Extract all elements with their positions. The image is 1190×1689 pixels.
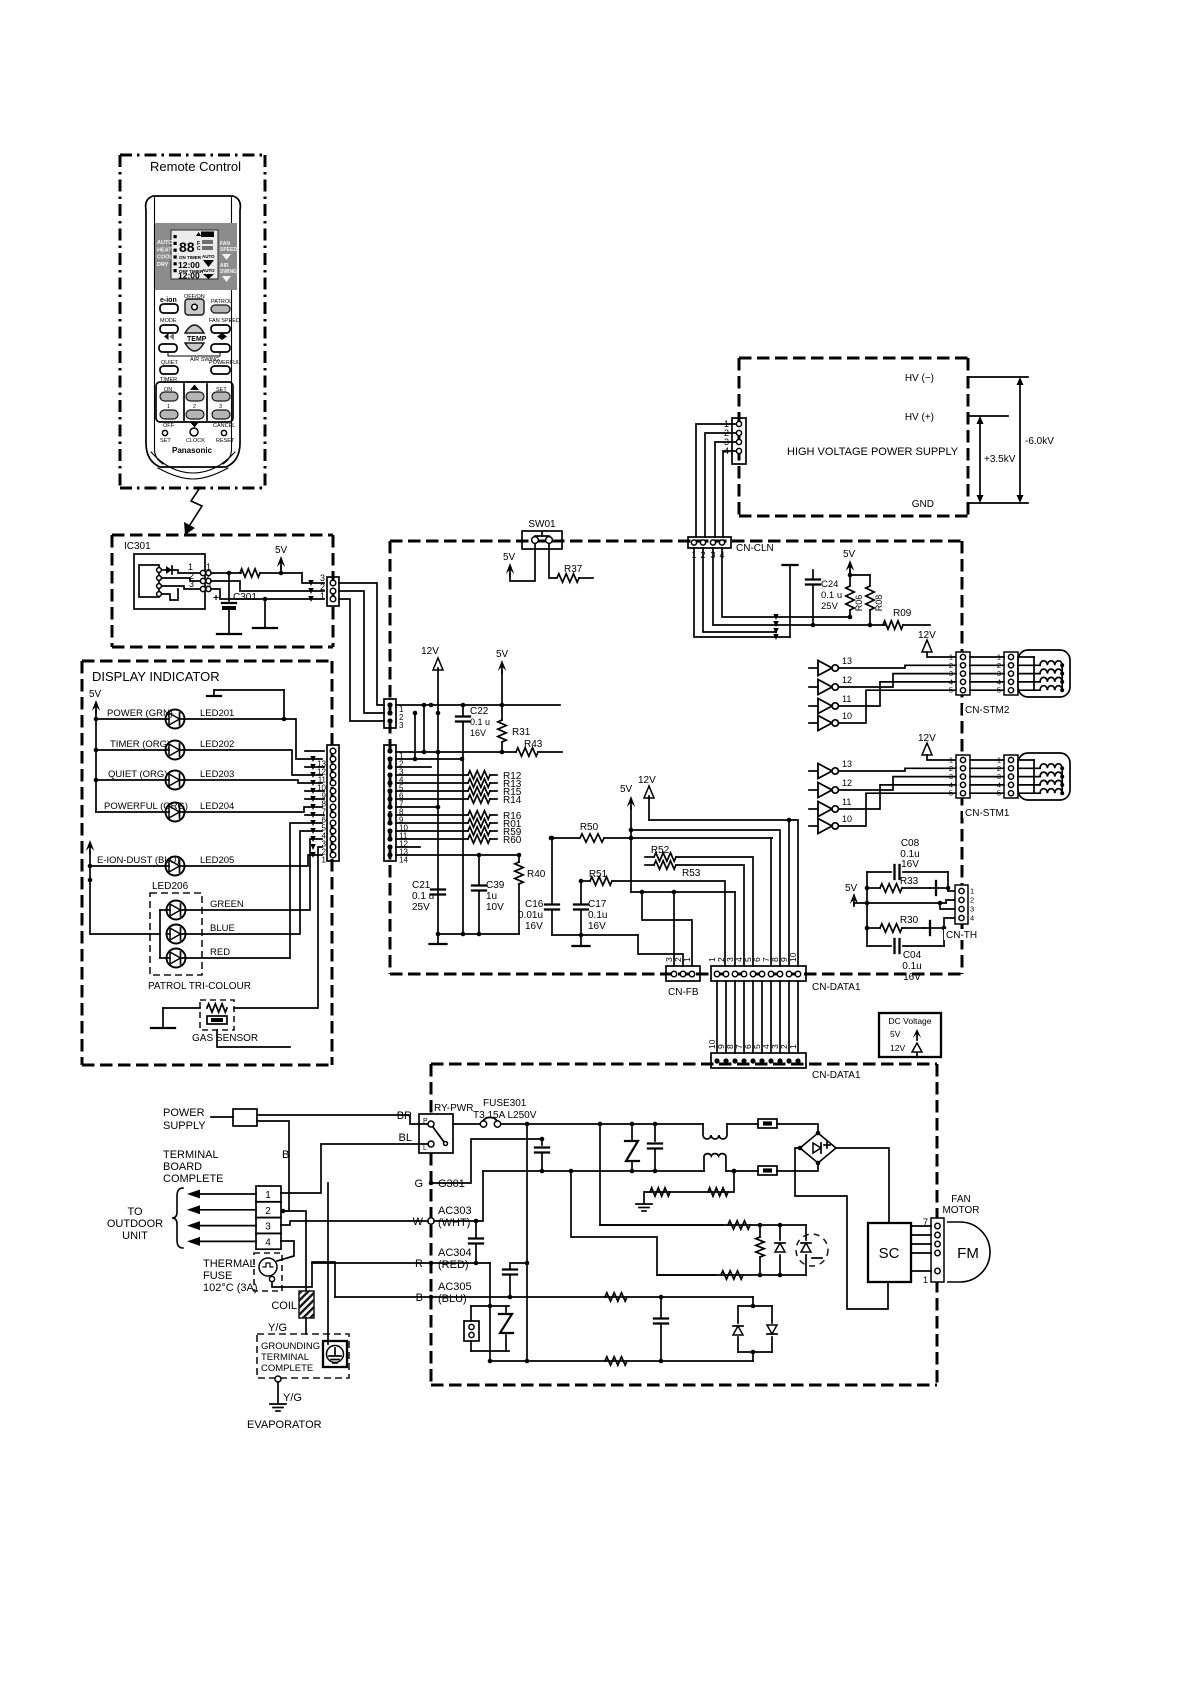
capacitor near AC305 <box>509 1276 511 1297</box>
main 3-pin connector <box>384 699 396 728</box>
capacitor C39 <box>478 855 480 884</box>
svg-text:Panasonic: Panasonic <box>172 446 213 455</box>
svg-text:OFF: OFF <box>163 423 175 429</box>
resistor R60 <box>396 838 468 840</box>
svg-text:5V: 5V <box>496 649 509 660</box>
resistor R12 <box>396 774 468 776</box>
svg-text:1: 1 <box>167 404 170 410</box>
bridge rectifier <box>798 1131 836 1166</box>
svg-text:FUSE: FUSE <box>203 1270 232 1282</box>
display side connector 14-pin <box>327 745 339 861</box>
svg-text:1: 1 <box>320 591 325 601</box>
svg-text:UNIT: UNIT <box>122 1230 148 1242</box>
LED206 feed rail <box>90 933 160 935</box>
resistor R15 <box>396 790 468 792</box>
svg-text:TERMINAL: TERMINAL <box>163 1149 219 1161</box>
ground resistor row <box>644 1171 734 1204</box>
svg-text:GAS SENSOR: GAS SENSOR <box>192 1033 258 1044</box>
svg-text:3: 3 <box>219 404 222 410</box>
svg-text:16V: 16V <box>903 972 921 983</box>
svg-text:AUTO: AUTO <box>202 254 215 259</box>
svg-text:T3.15A L250V: T3.15A L250V <box>473 1110 537 1121</box>
svg-text:16V: 16V <box>588 921 606 932</box>
svg-text:1: 1 <box>923 1275 928 1285</box>
svg-text:2: 2 <box>193 404 196 410</box>
stepping motor CN-STM2 <box>1018 650 1070 697</box>
svg-text:CN-DATA1: CN-DATA1 <box>812 1070 861 1081</box>
resistor R08 <box>866 586 874 610</box>
connector CN-FB <box>664 957 700 998</box>
coil feed wire <box>281 1209 286 1214</box>
capacitor C08 loop <box>866 872 868 946</box>
svg-text:LED201: LED201 <box>200 708 234 719</box>
capacitor mid bottom <box>660 1297 662 1317</box>
AC bus to bottom fuse <box>726 1170 758 1172</box>
svg-text:102°C (3A): 102°C (3A) <box>203 1282 258 1294</box>
svg-text:G301: G301 <box>438 1178 465 1190</box>
svg-text:C22: C22 <box>470 706 489 717</box>
bus under C16 C17 <box>552 934 638 936</box>
arrows to outdoor unit <box>199 1193 256 1195</box>
svg-text:AUTO: AUTO <box>157 240 173 246</box>
svg-text:RED: RED <box>210 947 230 958</box>
svg-text:12: 12 <box>842 675 852 685</box>
gas sensor wires <box>163 1007 200 1009</box>
photocoupler resistor <box>759 1225 761 1237</box>
svg-text:DC Voltage: DC Voltage <box>889 1016 932 1026</box>
svg-text:MOTOR: MOTOR <box>942 1205 979 1216</box>
svg-text:COIL: COIL <box>271 1300 297 1312</box>
LED206 blue <box>167 925 186 944</box>
svg-text:3: 3 <box>265 1222 271 1233</box>
svg-text:C24: C24 <box>821 579 838 590</box>
svg-text:5V: 5V <box>503 552 516 563</box>
svg-text:POWER (GRN): POWER (GRN) <box>107 708 173 719</box>
svg-text:0.1u: 0.1u <box>902 961 921 972</box>
inverter buffers CN-STM2 <box>809 667 818 669</box>
svg-text:C: C <box>197 246 201 252</box>
svg-text:B: B <box>416 1292 423 1304</box>
LED202 timer orange <box>96 749 166 751</box>
resistor on B row <box>605 1293 627 1301</box>
ground stub top <box>214 689 284 691</box>
svg-text:10V: 10V <box>486 902 504 913</box>
svg-text:(RED): (RED) <box>438 1259 469 1271</box>
brace outdoor <box>172 1188 183 1248</box>
svg-text:0.1u: 0.1u <box>588 910 607 921</box>
wire B AC305 <box>429 1295 434 1300</box>
noise filter box bottom <box>758 1166 777 1175</box>
main 14-pin connector <box>384 745 396 861</box>
remote buttons <box>156 294 240 455</box>
row14 with C39 R40 <box>396 854 519 856</box>
svg-text:R50: R50 <box>580 822 599 833</box>
svg-text:1u: 1u <box>486 891 497 902</box>
svg-text:AUTO: AUTO <box>202 268 215 273</box>
svg-text:+3.5kV: +3.5kV <box>984 454 1016 465</box>
+3.5kV dimension arrow <box>979 420 981 499</box>
svg-text:1: 1 <box>788 1044 798 1049</box>
svg-text:PATROL: PATROL <box>211 299 232 305</box>
bottom bus AC <box>490 1360 753 1362</box>
svg-text:QUIET: QUIET <box>161 360 178 366</box>
svg-text:10: 10 <box>842 814 852 824</box>
thermal fuse <box>254 1253 282 1291</box>
svg-text:4: 4 <box>265 1237 271 1248</box>
capacitor W-R <box>475 1221 477 1237</box>
svg-text:0.1 u: 0.1 u <box>470 717 490 727</box>
wires CN-CLN down to nets <box>694 548 790 637</box>
svg-text:12V: 12V <box>890 1043 905 1053</box>
line filter transformer <box>703 1124 727 1171</box>
svg-text:RESET: RESET <box>216 438 235 444</box>
svg-text:12: 12 <box>842 778 852 788</box>
svg-text:C21: C21 <box>412 880 431 891</box>
svg-text:THERMAL: THERMAL <box>203 1258 256 1270</box>
svg-text:1: 1 <box>265 1190 271 1201</box>
svg-text:FUSE301: FUSE301 <box>483 1098 527 1109</box>
svg-text:E-ION-DUST (BLU): E-ION-DUST (BLU) <box>97 855 180 866</box>
resistor R06 <box>846 586 854 610</box>
svg-text:SW01: SW01 <box>528 519 556 530</box>
svg-text:R09: R09 <box>893 608 912 619</box>
wires IC301 connector to main board <box>339 583 384 705</box>
-6.0kV dimension arrow <box>1019 381 1021 499</box>
connector CN-DATA1 bottom <box>707 1039 861 1081</box>
LED203 quiet orange <box>96 779 166 781</box>
capacitor C22 <box>462 705 464 715</box>
svg-text:R60: R60 <box>503 835 522 846</box>
wire G301 to cap <box>429 1181 434 1186</box>
svg-text:R53: R53 <box>682 868 701 879</box>
direction arrows into display connector <box>308 580 314 586</box>
svg-text:DRY: DRY <box>157 262 169 268</box>
svg-text:13: 13 <box>842 656 852 666</box>
svg-text:C04: C04 <box>903 950 922 961</box>
svg-text:0.1 u: 0.1 u <box>412 891 434 902</box>
svg-text:EVAPORATOR: EVAPORATOR <box>247 1419 322 1431</box>
svg-text:MODE: MODE <box>160 318 177 324</box>
svg-text:Y/G: Y/G <box>283 1392 302 1404</box>
resistor R31 <box>501 705 503 720</box>
arrester loop <box>489 1263 491 1361</box>
svg-text:-6.0kV: -6.0kV <box>1025 436 1054 447</box>
connector CN-TH <box>944 885 986 941</box>
svg-text:3: 3 <box>970 905 974 914</box>
high voltage power supply box <box>739 358 968 516</box>
LED206 green <box>167 901 186 920</box>
ground C301 <box>217 633 241 635</box>
svg-text:CN-CLN: CN-CLN <box>736 543 774 554</box>
svg-text:C08: C08 <box>901 838 920 849</box>
svg-text:e-ion: e-ion <box>160 297 177 304</box>
svg-text:R: R <box>415 1258 423 1270</box>
svg-text:GROUNDING: GROUNDING <box>261 1341 320 1352</box>
row3 stub <box>396 766 431 768</box>
switch SW01 <box>522 519 562 549</box>
svg-text:PATROL TRI-COLOUR: PATROL TRI-COLOUR <box>148 981 251 992</box>
vertical dropper to lower rows <box>600 1124 723 1225</box>
gas sensor <box>192 1000 258 1044</box>
svg-text:LED205: LED205 <box>200 855 234 866</box>
svg-text:+: + <box>213 593 219 604</box>
svg-text:1: 1 <box>322 856 327 865</box>
wires to CN-TH pins 2-3 <box>940 903 956 909</box>
svg-text:CN-TH: CN-TH <box>946 930 977 941</box>
12V distribution to bundle <box>649 820 798 966</box>
remote LCD panel <box>155 223 237 290</box>
svg-text:COMPLETE: COMPLETE <box>261 1363 313 1374</box>
svg-text:5V: 5V <box>843 549 856 560</box>
resistor R13 <box>396 782 468 784</box>
svg-text:SET: SET <box>160 438 171 444</box>
LED204 powerful orange <box>96 811 166 813</box>
svg-text:TO: TO <box>127 1206 143 1218</box>
svg-text:C39: C39 <box>486 880 505 891</box>
photo triac <box>796 1225 828 1275</box>
svg-text:HIGH VOLTAGE POWER SUPPLY: HIGH VOLTAGE POWER SUPPLY <box>787 446 959 458</box>
row13 stub <box>396 846 420 848</box>
svg-text:R40: R40 <box>527 869 546 880</box>
svg-text:2: 2 <box>265 1206 271 1217</box>
row from pin1 with C22 R31 <box>396 704 560 706</box>
svg-text:10: 10 <box>842 711 852 721</box>
svg-text:DISPLAY INDICATOR: DISPLAY INDICATOR <box>92 669 220 684</box>
electrode line with T top <box>789 565 791 637</box>
svg-text:C17: C17 <box>588 899 607 910</box>
IC301 section box <box>112 535 333 647</box>
connector CN-STM2 board side <box>956 652 970 695</box>
IC301 IR receiver <box>134 554 211 609</box>
capacitor across AC <box>654 1124 656 1141</box>
LED201 power green <box>96 718 166 720</box>
DC voltage legend box <box>879 1013 941 1057</box>
IR signal verticals <box>423 705 425 752</box>
svg-text:IC301: IC301 <box>124 541 151 552</box>
5V row to bundle p8 <box>631 830 780 966</box>
svg-text:SC: SC <box>879 1245 900 1262</box>
bridge output to SC <box>836 1148 889 1223</box>
resistor R14 <box>396 798 468 800</box>
svg-text:FM: FM <box>957 1245 979 1262</box>
svg-text:GREEN: GREEN <box>210 899 244 910</box>
main AC bus top <box>527 1123 703 1125</box>
svg-text:HEAT: HEAT <box>157 247 172 253</box>
connector CN-STM1 motor side <box>1004 755 1018 798</box>
grounding link from G301 <box>327 1183 329 1344</box>
capacitor C301 <box>228 575 230 601</box>
AC bus second <box>483 1170 704 1172</box>
relay RY-PWR <box>419 1103 473 1153</box>
svg-text:COOL: COOL <box>157 255 174 261</box>
svg-text:TEMP: TEMP <box>187 336 207 343</box>
wire W AC303 <box>428 1218 434 1224</box>
svg-text:C16: C16 <box>525 899 544 910</box>
thermal fuse wiring <box>277 1241 294 1261</box>
photocoupler diode <box>779 1225 781 1240</box>
svg-text:11: 11 <box>842 797 851 807</box>
IC301 output connector 3-pin <box>327 577 339 606</box>
wire R AC304 <box>429 1261 434 1266</box>
svg-text:R33: R33 <box>900 876 919 887</box>
svg-text:(BLU): (BLU) <box>438 1293 467 1305</box>
svg-text:5V: 5V <box>620 784 633 795</box>
wires CN-DATA1 to lower board <box>716 981 718 1053</box>
svg-text:25V: 25V <box>821 601 839 612</box>
bridge return path <box>795 1148 888 1309</box>
svg-text:1: 1 <box>682 957 692 962</box>
capacitor C24 <box>812 570 814 578</box>
svg-text:LED206: LED206 <box>152 881 189 892</box>
connector CN-CLN 4-pin <box>688 537 774 560</box>
remote control body <box>146 196 241 479</box>
svg-text:CN-STM2: CN-STM2 <box>965 705 1010 716</box>
R50 to bundle p7 <box>771 838 772 966</box>
photocoupler bottom row <box>657 1274 806 1276</box>
direction arrows on CLN nets <box>773 614 779 620</box>
svg-text:R31: R31 <box>512 727 531 738</box>
connector CN-DATA1 top <box>707 952 861 993</box>
fuse FUSE301 <box>453 1098 537 1127</box>
svg-text:10: 10 <box>788 952 798 962</box>
svg-text:14: 14 <box>399 856 408 865</box>
vertical to photocoupler bottom row <box>571 1171 715 1275</box>
svg-text:88: 88 <box>179 239 195 255</box>
svg-text:TIMER (ORG): TIMER (ORG) <box>110 739 170 750</box>
svg-text:QUIET (ORG): QUIET (ORG) <box>108 769 167 780</box>
svg-text:R30: R30 <box>900 915 919 926</box>
wires HVPS to CN-CLN <box>696 424 736 537</box>
svg-text:Y/G: Y/G <box>268 1322 287 1334</box>
main control board box <box>390 541 962 974</box>
power board section box <box>431 1064 937 1385</box>
svg-text:16V: 16V <box>470 728 486 738</box>
ground stub <box>437 934 439 944</box>
long vertical from fuse <box>526 1124 528 1361</box>
LED206 tri-colour box <box>150 881 202 975</box>
svg-text:W: W <box>413 1216 424 1228</box>
svg-text:BL: BL <box>399 1132 412 1144</box>
svg-text:C301: C301 <box>233 592 257 603</box>
svg-text:SWING: SWING <box>220 269 237 275</box>
LED206 red <box>167 949 186 968</box>
svg-text:5V: 5V <box>845 883 858 894</box>
arrow from remote to IC301 <box>188 489 202 528</box>
evaporator ground <box>275 1376 281 1382</box>
svg-text:25V: 25V <box>412 902 430 913</box>
svg-text:11: 11 <box>842 694 851 704</box>
display indicator section box <box>82 661 332 1065</box>
row8 to 12V rail <box>396 806 438 808</box>
svg-text:HV (−): HV (−) <box>905 373 934 384</box>
resistor R16 <box>396 814 468 816</box>
svg-text:16V: 16V <box>525 921 543 932</box>
svg-text:R52: R52 <box>651 845 670 856</box>
5V rail E-ION <box>86 840 94 851</box>
svg-text:13: 13 <box>842 759 852 769</box>
svg-text:1: 1 <box>970 887 974 896</box>
svg-text:LED202: LED202 <box>200 739 234 750</box>
svg-text:HV (+): HV (+) <box>905 412 934 423</box>
bottom bus of C21 cluster <box>438 933 519 935</box>
svg-text:0.01u: 0.01u <box>518 910 543 921</box>
svg-text:16V: 16V <box>901 859 919 870</box>
svg-text:AC305: AC305 <box>438 1281 472 1293</box>
svg-text:POWERFUL: POWERFUL <box>209 360 240 366</box>
svg-text:OUTDOOR: OUTDOOR <box>107 1218 163 1230</box>
svg-text:BOARD: BOARD <box>163 1161 202 1173</box>
inverter buffers CN-STM1 <box>809 770 818 772</box>
stepping motor CN-STM1 <box>1018 753 1070 800</box>
grounding terminal complete <box>257 1334 349 1378</box>
5V branch to CN-FB <box>631 891 735 893</box>
svg-text:FAN: FAN <box>951 1194 970 1205</box>
svg-text:CN-STM1: CN-STM1 <box>965 808 1010 819</box>
terminal board 1-4 <box>256 1186 281 1249</box>
varistor Z1 <box>631 1124 633 1139</box>
svg-text:5V: 5V <box>275 545 288 556</box>
svg-text:COMPLETE: COMPLETE <box>163 1173 224 1185</box>
resistor on IC301 output <box>240 569 260 577</box>
fan motor connector <box>911 1217 944 1285</box>
svg-text:12V: 12V <box>638 775 656 786</box>
svg-text:0.1 u: 0.1 u <box>821 590 842 601</box>
ground IC301 <box>263 597 268 602</box>
svg-text:TERMINAL: TERMINAL <box>261 1352 309 1363</box>
svg-text:CN-FB: CN-FB <box>668 987 699 998</box>
svg-text:R14: R14 <box>503 795 522 806</box>
svg-text:RY-PWR: RY-PWR <box>434 1103 473 1114</box>
svg-text:G: G <box>414 1178 423 1190</box>
capacitor C16 vertical <box>550 836 555 841</box>
wire IC301 pin1 net <box>211 572 241 574</box>
svg-text:5V: 5V <box>89 689 102 700</box>
direction arrows into display 14p connector <box>305 750 324 752</box>
svg-text:POWERFUL (ORG): POWERFUL (ORG) <box>104 801 188 812</box>
SC speed controller <box>868 1223 911 1282</box>
svg-text:FAN SPEED: FAN SPEED <box>209 318 240 324</box>
svg-text:4: 4 <box>970 914 974 923</box>
resistor R30 loop <box>865 926 870 931</box>
svg-text:CN-DATA1: CN-DATA1 <box>812 982 861 993</box>
wire IC301 pin3 net <box>211 589 324 599</box>
photocoupler top row <box>600 1224 806 1226</box>
svg-text:CLOCK: CLOCK <box>186 438 205 444</box>
resistor R40 <box>518 855 520 862</box>
capacitor C04 loop <box>867 945 891 947</box>
svg-text:POWER: POWER <box>163 1107 205 1119</box>
wire IC301 pin2 net <box>211 581 324 591</box>
svg-text:L: L <box>423 1145 427 1152</box>
fan motor FM <box>942 1194 990 1282</box>
svg-text:P: P <box>423 1118 428 1125</box>
svg-text:R06: R06 <box>854 595 864 612</box>
svg-text:2: 2 <box>970 896 974 905</box>
LED205 e-ion-dust blue <box>90 865 166 867</box>
svg-text:3: 3 <box>189 579 194 589</box>
resistor R01 <box>396 822 468 824</box>
svg-text:5V: 5V <box>890 1029 901 1039</box>
capacitor C17 vertical <box>579 879 584 884</box>
wire coil to grounding terminal <box>305 1318 307 1334</box>
svg-text:AC304: AC304 <box>438 1247 472 1259</box>
noise filter box top <box>758 1119 777 1128</box>
svg-text:R08: R08 <box>874 595 884 612</box>
HVPS input connector 4-pin <box>732 418 746 464</box>
svg-text:LED203: LED203 <box>200 769 234 780</box>
svg-text:GND: GND <box>912 499 934 510</box>
svg-text:AC303: AC303 <box>438 1205 472 1217</box>
